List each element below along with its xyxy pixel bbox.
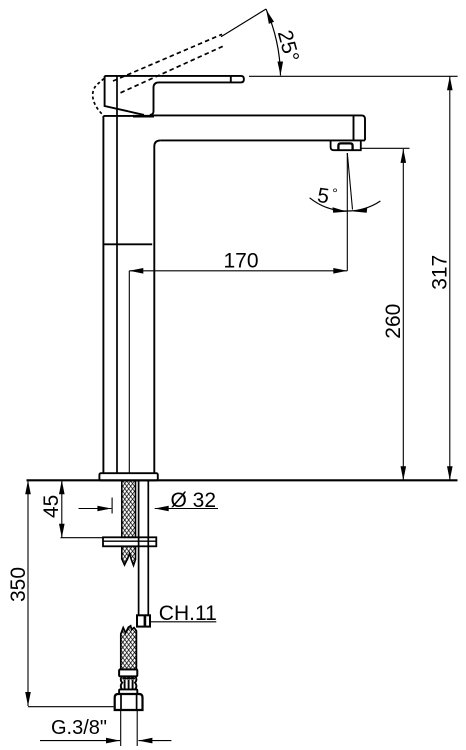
25 deg arrowhead top — [264, 9, 274, 24]
hose ferrule collar top — [119, 669, 137, 676]
handle-body junction thick line — [133, 115, 154, 118]
170 dimension line — [129, 270, 347, 272]
spout bottom edge — [160, 139, 365, 141]
aerator housing — [331, 140, 361, 150]
dia 32 right arrowhead — [155, 506, 169, 512]
170 left arrowhead — [129, 268, 143, 274]
svg-text:350: 350 — [7, 567, 30, 602]
5 deg tilted stream line — [347, 153, 352, 210]
317 top extension line — [249, 75, 458, 77]
dia 32 dimension left line — [79, 508, 112, 510]
G3/8 dimension right line — [138, 740, 171, 742]
mounting nut — [103, 537, 156, 546]
dia 32 left tick — [111, 498, 113, 514]
G3/8 left arrowhead — [106, 738, 120, 744]
25 deg dimension arc — [266, 9, 281, 76]
CH.11 leader line — [150, 621, 216, 623]
dia 32 right line — [155, 508, 218, 510]
350 bottom extension line — [28, 706, 114, 708]
spout top edge — [151, 115, 365, 140]
CH.11 fitting inner detail — [144, 615, 147, 626]
CH.11 fitting — [137, 615, 150, 626]
spout end cap line — [353, 115, 355, 140]
svg-text:25°: 25° — [273, 28, 303, 65]
hose hex nut — [115, 694, 143, 710]
5 deg arrowhead left — [333, 207, 348, 213]
handle joint line — [116, 76, 118, 473]
faucet column left edge — [102, 116, 104, 473]
5 deg arrowhead right — [353, 207, 368, 213]
260 bottom arrowhead — [401, 466, 407, 480]
svg-text:CH.11: CH.11 — [159, 602, 217, 625]
dia 32 left arrowhead — [97, 506, 111, 512]
column top-left corner — [103, 115, 154, 117]
hex nut facets — [121, 694, 137, 710]
170 right arrowhead — [333, 268, 347, 274]
svg-text:317: 317 — [428, 255, 451, 290]
column right edge with fillet — [154, 140, 160, 473]
45 top arrowhead — [59, 480, 65, 494]
countertop line — [27, 479, 458, 481]
svg-text:Ø 32: Ø 32 — [171, 489, 217, 512]
G3/8 right arrowhead — [138, 738, 152, 744]
threaded shank upper — [122, 481, 136, 538]
317 dimension line — [449, 76, 451, 480]
supply pipe — [139, 481, 149, 616]
dashed raised handle lever — [113, 34, 224, 93]
svg-text:°: ° — [332, 185, 338, 201]
aerator insert — [338, 143, 352, 150]
threaded shank lower with break — [122, 546, 136, 565]
svg-text:170: 170 — [224, 249, 259, 272]
G3/8 right extension line — [136, 710, 138, 746]
mounting nut inner line — [103, 540, 156, 542]
handle lever — [105, 76, 244, 115]
350 top arrowhead — [25, 480, 31, 494]
dashed raised handle front cap — [93, 79, 104, 115]
svg-text:260: 260 — [382, 304, 405, 339]
25 deg dimension ray — [221, 9, 266, 37]
flexible hose braided section — [121, 626, 137, 670]
170 drop line — [128, 271, 130, 473]
G3/8 left extension line — [120, 710, 122, 746]
350 bottom arrowhead — [25, 692, 31, 706]
base flange — [99, 473, 157, 480]
spout outlet centerline — [346, 153, 348, 271]
svg-text:5: 5 — [316, 184, 331, 208]
317 bottom arrowhead — [447, 466, 453, 480]
5 deg arc — [310, 198, 381, 211]
260 dimension line — [402, 149, 404, 480]
hose ferrule collar bottom — [119, 689, 137, 694]
260 top arrowhead — [401, 149, 407, 163]
45 bottom arrowhead — [59, 524, 65, 538]
hose crimp section — [121, 676, 137, 689]
svg-text:G.3/8": G.3/8" — [51, 717, 107, 739]
317 top arrowhead — [447, 76, 453, 90]
cartridge joint line — [104, 243, 152, 245]
25 deg arrowhead bottom — [277, 61, 283, 75]
G3/8 dimension left line — [40, 740, 120, 742]
svg-text:45: 45 — [40, 495, 63, 518]
45 bottom extension line — [61, 537, 104, 539]
45 dimension line — [61, 480, 63, 537]
350 dimension line — [27, 480, 29, 706]
260 extension line — [361, 147, 410, 149]
